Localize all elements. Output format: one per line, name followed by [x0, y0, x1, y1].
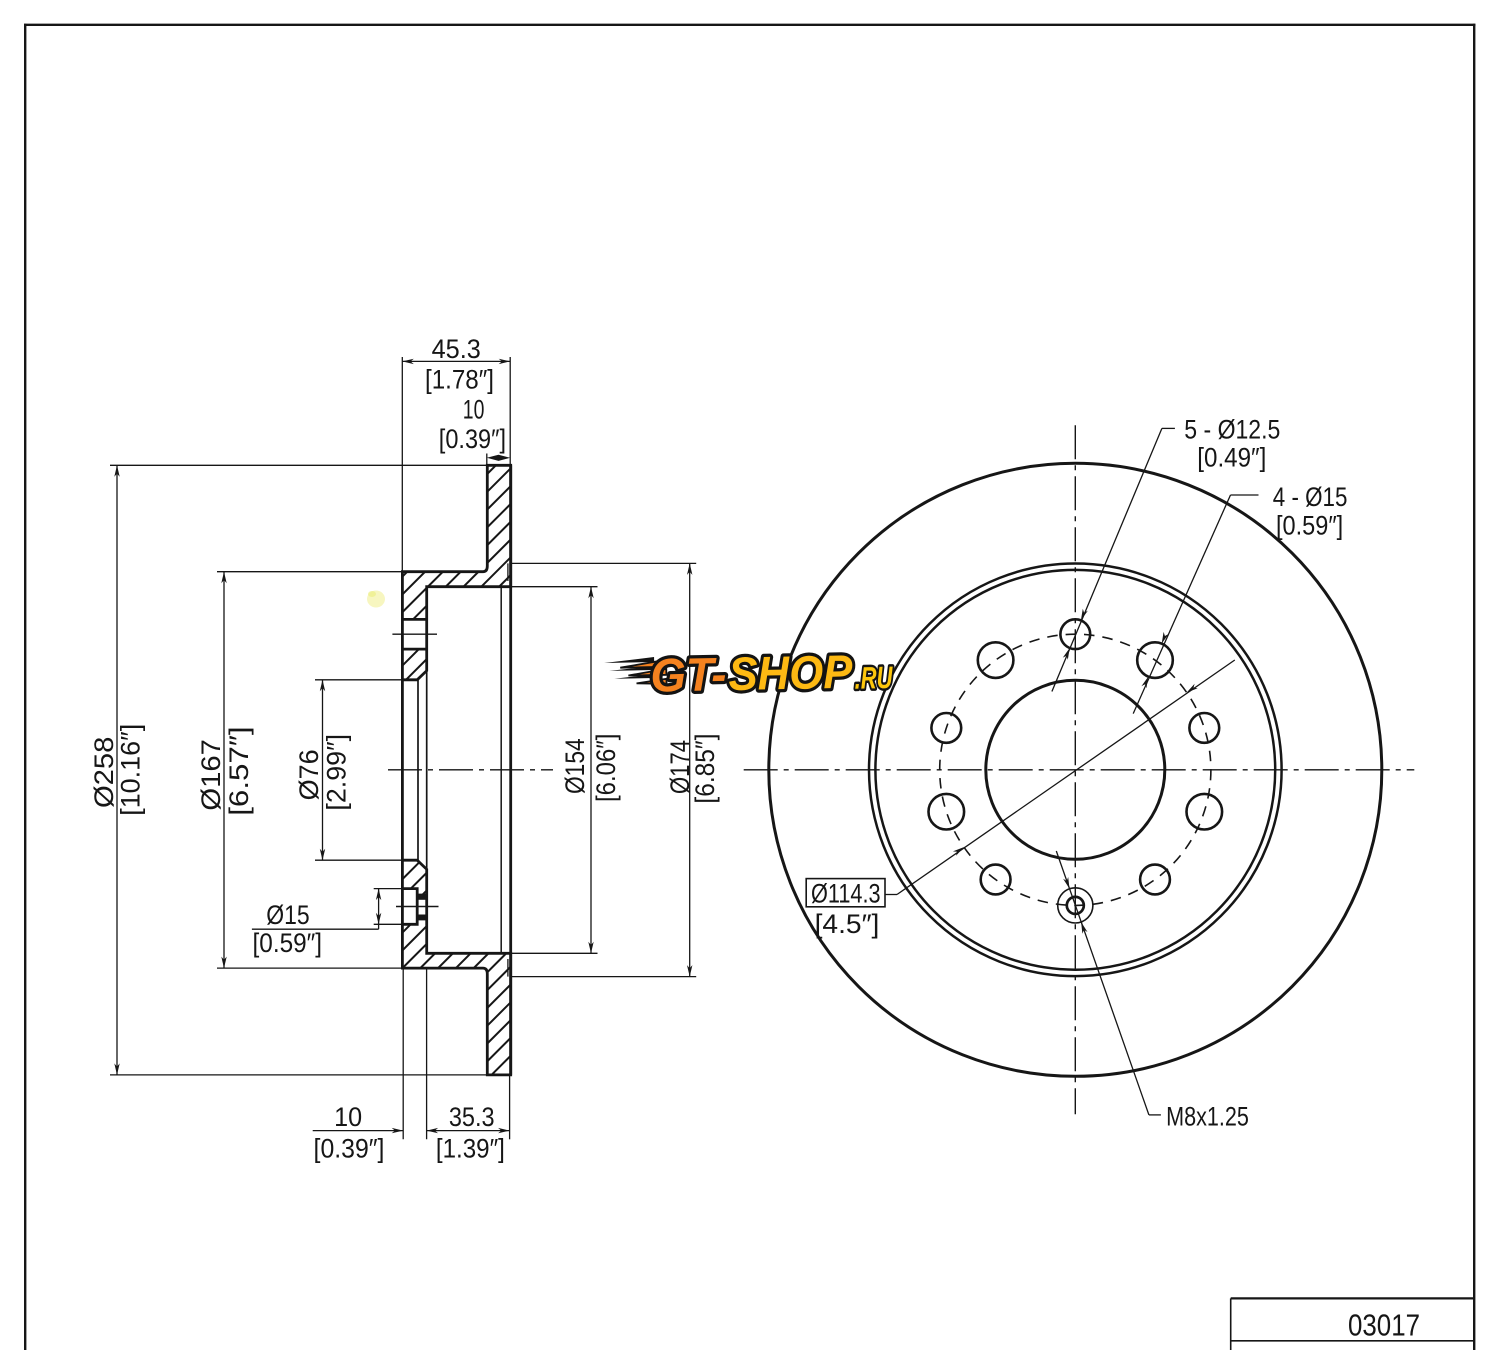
- dim [6.85"] label: [690, 734, 720, 804]
- svg-text:10: 10: [334, 1102, 362, 1132]
- svg-text:[4.5″]: [4.5″]: [815, 909, 880, 939]
- dim 10/35.3 bottom extension line middle: [426, 968, 428, 1139]
- drawing border frame right: [1473, 24, 1475, 1350]
- title block box: [1231, 1298, 1475, 1350]
- dim [6.57"] label: [224, 726, 254, 815]
- dim [1.78"] label: [425, 364, 494, 394]
- M8x1.25 threaded hole thread circle: [1058, 888, 1093, 923]
- svg-text:[0.59″]: [0.59″]: [1276, 511, 1343, 541]
- svg-text:[2.99″]: [2.99″]: [322, 734, 352, 811]
- dim Ø258 label: [89, 737, 119, 809]
- dim Ø174 extension line bottom: [511, 976, 697, 978]
- dim Ø258 extension line bottom: [110, 1074, 487, 1076]
- dim 10 top extension tick: [486, 454, 488, 467]
- M8 hole centerline tick (section): [396, 906, 439, 908]
- dim 10 bottom label: [334, 1102, 362, 1132]
- svg-text:[0.59″]: [0.59″]: [253, 928, 323, 958]
- dim Ø167 dimension line: [221, 572, 226, 968]
- dim Ø167 label: [196, 739, 226, 811]
- dim 45.3 label: [432, 334, 481, 364]
- dim Ø167 extension line bottom: [217, 967, 402, 969]
- lug hole Ø12.5 #1: [1060, 619, 1090, 649]
- svg-text:Ø76: Ø76: [294, 749, 324, 800]
- title block part number 03017: [1348, 1307, 1420, 1342]
- M8x1.25 threaded hole minor circle: [1067, 897, 1084, 914]
- center bore circle Ø76: [986, 680, 1165, 859]
- dim 45.3 extension line right: [509, 357, 511, 465]
- dim Ø154 dimension line: [588, 587, 593, 954]
- svg-text:03017: 03017: [1348, 1307, 1420, 1342]
- svg-text:[10.16″]: [10.16″]: [116, 724, 146, 816]
- lug hole Ø12.5 #4: [981, 865, 1011, 895]
- svg-text:[0.39″]: [0.39″]: [439, 424, 506, 454]
- dim 10 top label: [463, 394, 485, 424]
- dim 10 top double arrow: [487, 455, 510, 461]
- hat flange circle Ø167: [875, 570, 1275, 970]
- dim Ø15 extension line top: [374, 888, 418, 890]
- section horizontal centerline: [388, 769, 553, 771]
- svg-text:GT-: GT-: [650, 647, 727, 701]
- dim Ø154 extension line bottom: [505, 952, 598, 954]
- svg-text:10: 10: [463, 394, 485, 424]
- hat flange face edge between sections: [426, 671, 428, 870]
- leader 4-Ø15 dimension line upper: [1133, 495, 1258, 714]
- svg-text:35.3: 35.3: [449, 1102, 495, 1132]
- dim Ø15 extension line bottom: [374, 923, 418, 925]
- svg-text:Ø114.3: Ø114.3: [811, 878, 881, 908]
- label [0.59"] right: [1276, 511, 1343, 541]
- svg-text:5 - Ø12.5: 5 - Ø12.5: [1184, 415, 1280, 445]
- svg-text:[1.39″]: [1.39″]: [436, 1134, 505, 1164]
- alignment hole Ø15 #4: [978, 642, 1014, 678]
- dim Ø174 dimension line: [687, 563, 692, 976]
- dim Ø174 extension line top: [511, 562, 697, 564]
- svg-text:Ø154: Ø154: [560, 738, 590, 794]
- alignment hole Ø15 #2: [1187, 794, 1223, 830]
- dim Ø174 label: [665, 740, 695, 794]
- leader M8x1.25 lower dimension line: [1081, 922, 1161, 1115]
- lug hole Ø12.5 #2: [1189, 713, 1219, 743]
- leader M8x1.25 upper tail: [1056, 851, 1149, 1115]
- gt-shop.ru watermark logo: [604, 644, 894, 703]
- center bore silhouette left edge: [401, 680, 404, 860]
- label [0.49"]: [1197, 442, 1266, 472]
- dim Ø114.3 bolt circle dimension line: [885, 660, 1235, 895]
- label 5-Ø12.5: [1184, 415, 1280, 445]
- alignment hole Ø15 #1: [1137, 642, 1173, 678]
- section outline top half (disc ring, hat plate, mounting flange): [402, 465, 510, 680]
- svg-text:SHOP: SHOP: [728, 645, 854, 700]
- dim 45.3 dimension line: [402, 359, 510, 364]
- dim [6.06"] label: [591, 734, 621, 802]
- dim 10 bottom dimension line: [313, 1128, 404, 1133]
- drawing border frame top: [24, 24, 1475, 26]
- svg-text:.RU: .RU: [854, 660, 894, 696]
- svg-text:Ø167: Ø167: [196, 739, 226, 811]
- svg-text:[0.39″]: [0.39″]: [314, 1134, 385, 1164]
- section hatching bottom half: [171, 860, 742, 1075]
- dim Ø258 extension line top: [110, 464, 487, 466]
- dim Ø167 extension line top: [217, 571, 402, 573]
- svg-text:Ø15: Ø15: [266, 900, 309, 930]
- M8 thread major line lower: [417, 914, 428, 918]
- svg-text:M8x1.25: M8x1.25: [1166, 1101, 1249, 1131]
- disc outboard face relief step upper: [507, 563, 509, 581]
- svg-text:[1.78″]: [1.78″]: [425, 364, 494, 394]
- svg-text:[6.57″]: [6.57″]: [224, 726, 254, 815]
- dim Ø154 extension line top: [505, 586, 598, 588]
- dim Ø76 extension line top: [315, 679, 402, 681]
- front view horizontal centerline: [744, 769, 1415, 771]
- section outline bottom half (disc ring, hat plate, mounting flange): [402, 860, 510, 1075]
- disc outer circle Ø258: [769, 463, 1382, 1076]
- dim Ø154 label: [560, 738, 590, 794]
- dim Ø258 dimension line: [114, 465, 119, 1075]
- dim Ø15 label: [266, 900, 309, 930]
- svg-text:[0.49″]: [0.49″]: [1197, 442, 1266, 472]
- lug hole centerline tick (section): [392, 633, 437, 635]
- section hatching top half: [175, 465, 728, 680]
- alignment hole Ø15 #3: [929, 794, 965, 830]
- drawing border frame left: [24, 24, 26, 1350]
- disc outboard face relief step lower: [507, 959, 509, 977]
- dim [1.39"] label: [436, 1134, 505, 1164]
- dim [0.59"] left label: [253, 928, 323, 958]
- lug hole Ø12.5 #3: [1140, 865, 1170, 895]
- center bore chamfer edge: [417, 680, 419, 860]
- lug hole Ø12.5 #5: [931, 713, 961, 743]
- dim Ø15 label shelf line: [252, 928, 379, 930]
- label [4.5"]: [815, 909, 880, 939]
- hat flange circle Ø174: [869, 564, 1282, 977]
- leader 5-Ø12.5 dimension line upper: [1052, 428, 1175, 691]
- front view vertical centerline: [1074, 425, 1076, 1114]
- dim [2.99"] label: [322, 734, 352, 811]
- dim Ø76 dimension line: [320, 680, 325, 860]
- disc outboard face edge: [509, 465, 512, 1075]
- dim 35.3 label: [449, 1102, 495, 1132]
- dim [0.39"] top label: [439, 424, 506, 454]
- dim Ø76 extension line bottom: [315, 859, 402, 861]
- label 4-Ø15: [1273, 482, 1348, 512]
- dim 35.3 dimension line: [427, 1128, 510, 1133]
- svg-text:4 - Ø15: 4 - Ø15: [1273, 482, 1348, 512]
- M8 thread major line upper: [417, 896, 428, 900]
- label Ø114.3 boxed: [806, 878, 885, 908]
- svg-text:45.3: 45.3: [432, 334, 481, 364]
- dim [10.16"] label: [116, 724, 146, 816]
- dim Ø76 label: [294, 749, 324, 800]
- svg-text:[6.85″]: [6.85″]: [690, 734, 720, 804]
- label M8x1.25: [1166, 1101, 1249, 1131]
- yellow watermark artifact speck: [367, 591, 385, 608]
- bolt circle Ø114.3 (dashed): [940, 634, 1211, 905]
- svg-text:[6.06″]: [6.06″]: [591, 734, 621, 802]
- dim 45.3 extension line left: [401, 357, 403, 572]
- dim 10 bottom extension line left: [402, 968, 404, 1139]
- dim Ø15 dimension line: [376, 889, 381, 930]
- disc inboard face step edge: [500, 587, 502, 954]
- dim [0.39"] bottom label: [314, 1134, 385, 1164]
- dim 35.3 extension line right: [509, 1075, 511, 1139]
